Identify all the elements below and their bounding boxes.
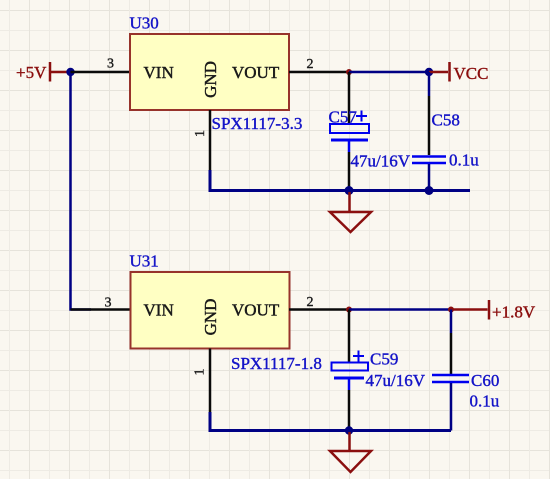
svg-text:0.1u: 0.1u (449, 151, 479, 170)
svg-text:GND: GND (201, 61, 220, 98)
C57 plus sign (356, 111, 367, 122)
svg-text:+5V: +5V (16, 63, 47, 82)
power port +5V (16, 62, 71, 82)
op-amp body U30 (130, 34, 289, 110)
capacitor C57 (330, 72, 369, 191)
junction at C60 top (red) (448, 307, 454, 313)
wire from +5V node down to U31 VIN (71, 72, 92, 310)
wire to +1.8V (451, 308, 488, 311)
svg-text:U30: U30 (130, 14, 159, 33)
svg-text:3: 3 (105, 296, 112, 311)
svg-text:0.1u: 0.1u (470, 392, 500, 411)
U30 pin 1 (GND) (193, 110, 210, 170)
capacitor C58 (412, 72, 446, 191)
svg-text:C57: C57 (329, 108, 358, 127)
U30 pin 2 (VOUT) (289, 57, 349, 72)
junction at C58 top (425, 68, 433, 76)
svg-text:1: 1 (193, 130, 208, 137)
ground symbol (U30) (330, 192, 371, 232)
C59 plus sign (353, 351, 364, 362)
wire C59 top to C60 top (349, 308, 451, 311)
svg-text:SPX1117-1.8: SPX1117-1.8 (231, 354, 322, 373)
U31 pin 3 (VIN) (71, 296, 131, 311)
svg-text:VIN: VIN (144, 301, 174, 320)
wire to VCC (429, 71, 448, 74)
svg-text:C59: C59 (370, 350, 398, 369)
U31 pin 2 (VOUT) (289, 295, 349, 310)
svg-text:C60: C60 (471, 371, 499, 390)
svg-text:VOUT: VOUT (232, 301, 280, 320)
svg-text:U31: U31 (130, 252, 159, 271)
ground rail wire (U31) (210, 412, 451, 431)
svg-text:47u/16V: 47u/16V (351, 152, 411, 171)
junction C57 bottom (345, 186, 354, 195)
junction C59 bottom (345, 426, 353, 434)
svg-text:1: 1 (193, 369, 208, 376)
junction at C57 top (red) (346, 69, 352, 75)
junction at +5V node (66, 68, 74, 76)
svg-text:47u/16V: 47u/16V (366, 371, 426, 390)
regulator body U31 (131, 272, 290, 349)
svg-text:C58: C58 (432, 111, 460, 130)
junction at C59 top (red) (346, 307, 352, 313)
ground rail wire (U30) (210, 170, 470, 191)
svg-text:GND: GND (201, 299, 220, 336)
svg-text:2: 2 (307, 295, 314, 310)
U31 pin 1 (GND) (193, 349, 211, 413)
power port VCC (450, 62, 489, 83)
svg-text:+1.8V: +1.8V (492, 303, 536, 322)
svg-text:SPX1117-3.3: SPX1117-3.3 (212, 114, 303, 133)
wire C57 top to C58 top (349, 71, 429, 74)
ground symbol (U31) (330, 432, 371, 472)
svg-text:2: 2 (307, 57, 314, 72)
U30 pin 3 (VIN) (71, 57, 131, 73)
svg-text:3: 3 (107, 57, 114, 72)
capacitor C60 (432, 310, 469, 431)
svg-text:VOUT: VOUT (232, 63, 280, 82)
junction C58 bottom (425, 186, 434, 195)
power port +1.8V (489, 300, 536, 322)
svg-text:VCC: VCC (454, 64, 489, 83)
capacitor C59 (332, 310, 369, 431)
svg-text:VIN: VIN (144, 63, 174, 82)
